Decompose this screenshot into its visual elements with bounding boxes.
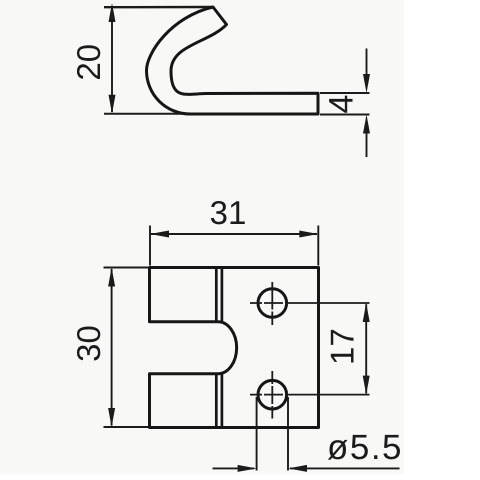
svg-text:31: 31 [210,194,247,231]
arrow up to strip bottom (4 dim) [363,115,370,134]
plate outline with open slot (left) and rounded slot end [150,268,319,428]
hole top [258,289,287,318]
dimension line 17 (vertical, right of holes) [365,304,367,393]
extension line hole diameter left [256,397,258,471]
arrow right-pointing (diameter left) [238,465,257,472]
dimension leader right (diameter) [290,467,400,469]
dimension line 20 (vertical, left) [111,8,113,112]
hole bottom centerline vertical [271,371,273,419]
extension line 31 left [149,226,151,266]
svg-text:17: 17 [324,328,361,365]
dimension line 30 (vertical, left of plate) [111,269,113,426]
leader line below (4 dim) [366,132,368,157]
arrow down (30) [108,408,115,427]
arrow up (17) [363,303,370,322]
arrow left-pointing (diameter right) [288,465,307,472]
svg-text:4: 4 [323,95,361,114]
extension line top (20 dim, runs to hook tip corner) [104,6,212,9]
extension line 30 top [104,267,149,269]
svg-text:30: 30 [70,325,107,362]
hole bottom [258,380,287,409]
arrow left (31) [150,231,169,238]
leader line above (4 dim) [366,49,368,77]
svg-text:ø5.5: ø5.5 [327,428,403,467]
extension line 4-dim top [320,92,370,94]
svg-text:20: 20 [70,44,107,81]
bend line lower right [221,374,224,428]
arrow down (20 bottom) [109,95,116,114]
hook body outline (J-shaped bent strip, side view) [147,7,319,114]
arrow down (17) [363,376,370,395]
extension line 31 right [317,226,319,266]
extension line bottom (20 dim, merges with hook bottom edge) [104,113,186,115]
hole bottom centerline horizontal (extends right as 17-dim extension) [250,394,370,396]
bend line lower left [215,375,218,428]
arrow up (20 top) [109,3,116,22]
bend line upper left [215,268,218,321]
extension line 30 bottom [104,426,149,428]
arrow right (31) [299,231,318,238]
extension line hole diameter right [287,397,289,471]
extension line 4-dim bottom [320,114,370,116]
dimension line 31 (horizontal, above plate) [151,233,317,235]
dimension leader left (diameter) [213,467,255,469]
bend line upper right [221,268,224,323]
arrow down to strip top (4 dim) [363,74,370,93]
arrow up (30) [108,268,115,287]
hole top centerline vertical [271,282,273,325]
hole top centerline horizontal (extends right as 17-dim extension) [250,302,370,304]
